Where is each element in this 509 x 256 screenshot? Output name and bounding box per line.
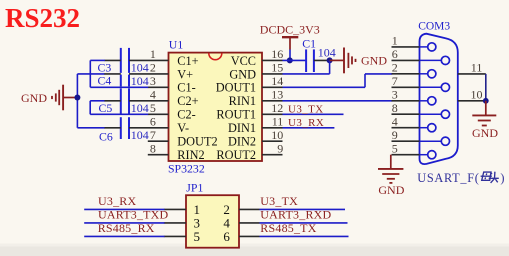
COM3 pin stubs (392, 47, 420, 155)
wire GND bus vertical (76, 74, 78, 128)
svg-text:7: 7 (150, 128, 156, 142)
svg-text:USART_F(: USART_F( (417, 171, 479, 185)
wire C1 to pin15 GND (283, 60, 330, 74)
svg-text:GND: GND (361, 53, 387, 67)
wire power stem to VCC (289, 50, 291, 61)
svg-text:GND: GND (472, 126, 498, 140)
svg-text:RS485_RX: RS485_RX (98, 221, 155, 235)
svg-text:3: 3 (392, 88, 398, 102)
wire JP1 pin5 (84, 235, 164, 237)
COM3 pin stub numbers (392, 34, 398, 156)
svg-text:C1+: C1+ (177, 54, 198, 68)
junction C1 right (327, 57, 333, 63)
power DCDC_3V3 rail (260, 23, 320, 50)
svg-text:16: 16 (271, 47, 283, 61)
svg-text:104: 104 (131, 74, 149, 88)
svg-text:6: 6 (223, 229, 230, 244)
connector JP1 body (186, 195, 239, 248)
wire JP1 pin6 (260, 235, 349, 237)
svg-text:DOUT2: DOUT2 (177, 135, 217, 149)
svg-text:U1: U1 (169, 38, 184, 52)
svg-text:C2+: C2+ (177, 94, 198, 108)
svg-text:DCDC_3V3: DCDC_3V3 (260, 23, 320, 37)
svg-text:8: 8 (150, 141, 156, 155)
COM3 pin holes (420, 43, 450, 159)
wire RIN1 pin13 to COM3 pin3 (283, 100, 393, 102)
capacitor C4 (98, 73, 169, 88)
svg-text:ROUT1: ROUT1 (216, 108, 256, 122)
svg-text:5: 5 (392, 141, 398, 155)
svg-text:5: 5 (150, 101, 156, 115)
U1 pin 7 lead (148, 140, 169, 142)
U1 pin names (177, 54, 256, 162)
svg-text:RS232: RS232 (5, 3, 80, 33)
svg-text:7: 7 (392, 74, 398, 88)
svg-text:11: 11 (471, 60, 483, 74)
wire C5 left (90, 100, 104, 102)
svg-text:12: 12 (271, 101, 283, 115)
JP1 pin numbers (194, 202, 231, 244)
svg-text:U3_RX: U3_RX (288, 117, 324, 129)
svg-text:6: 6 (392, 47, 398, 61)
svg-text:JP1: JP1 (186, 180, 203, 194)
svg-text:DOUT1: DOUT1 (216, 81, 256, 95)
svg-text:C6: C6 (99, 129, 113, 143)
op-amp U1 body (SP3232) (169, 53, 263, 161)
svg-text:DIN2: DIN2 (228, 135, 256, 149)
capacitor C5 (99, 88, 169, 115)
svg-text:C5: C5 (99, 101, 113, 115)
ground GND at COM3 pin5 (378, 155, 405, 198)
capacitor C1 (302, 36, 336, 72)
svg-text:RIN1: RIN1 (229, 94, 256, 108)
svg-text:UART3_TXD: UART3_TXD (98, 207, 169, 221)
svg-text:U3_TX: U3_TX (288, 103, 324, 115)
wire riser C5 to pin5 (89, 101, 91, 115)
U1 right pin numbers (271, 47, 283, 155)
svg-text:C1: C1 (302, 36, 316, 50)
svg-text:15: 15 (271, 61, 283, 75)
svg-text:COM3: COM3 (418, 20, 450, 32)
capacitor C3 (98, 48, 169, 75)
wire C3 to pin1 (90, 59, 105, 61)
COM3 pin 11 stub (458, 60, 486, 74)
svg-text:C1-: C1- (177, 81, 195, 95)
svg-text:ROUT2: ROUT2 (216, 148, 256, 162)
svg-text:GND: GND (229, 67, 256, 81)
U1 left pin numbers (150, 47, 156, 155)
svg-text:UART3_RXD: UART3_RXD (260, 207, 331, 221)
svg-text:8: 8 (392, 101, 398, 115)
connector COM3 body (420, 34, 458, 164)
svg-text:GND: GND (21, 91, 47, 105)
wire pin5 row (90, 113, 148, 115)
svg-text:4: 4 (392, 114, 398, 128)
wire pin3 row (90, 86, 148, 88)
svg-text:2: 2 (150, 61, 156, 75)
wire JP1 pin4 (260, 222, 348, 224)
U1 pin 3 lead (148, 86, 169, 88)
junction GND bus (74, 95, 80, 101)
svg-text:3: 3 (150, 74, 156, 88)
svg-text:): ) (500, 171, 504, 185)
svg-text:V-: V- (177, 121, 189, 135)
svg-text:9: 9 (277, 141, 283, 155)
wire C6 left to GND bus (77, 127, 104, 129)
svg-text:11: 11 (272, 115, 284, 129)
ground GND left (21, 85, 77, 111)
svg-text:DIN1: DIN1 (228, 121, 256, 135)
svg-text:VCC: VCC (231, 54, 256, 68)
COM3 pin 10 stub (458, 87, 486, 101)
svg-text:10: 10 (271, 128, 283, 142)
svg-text:104: 104 (318, 45, 336, 59)
svg-text:1: 1 (392, 34, 398, 48)
svg-text:RIN2: RIN2 (177, 148, 204, 162)
wire DOUT1 pin14 to COM3 pin2 (283, 74, 393, 87)
svg-text:SP3232: SP3232 (168, 162, 205, 176)
wire C4 left to GND bus (77, 73, 104, 75)
wire JP1 pin1 (84, 208, 164, 210)
svg-text:4: 4 (150, 88, 156, 102)
COM3 part name USART_F (417, 171, 504, 185)
svg-text:10: 10 (471, 87, 483, 101)
svg-text:104: 104 (131, 128, 149, 142)
svg-text:9: 9 (392, 128, 398, 142)
net label U3_RX at U1 (283, 117, 335, 129)
wire shield pins 10-11 (485, 74, 487, 101)
svg-text:C2-: C2- (177, 108, 195, 122)
junction shield GND (483, 98, 489, 104)
U1 pin 8 lead (148, 154, 169, 156)
U1 right pin leads 16-9 (262, 60, 283, 154)
net label U3_TX at U1 (283, 103, 344, 115)
svg-text:1: 1 (150, 47, 156, 61)
svg-text:C4: C4 (98, 73, 112, 87)
wire pin16 VCC to C1 (283, 59, 307, 61)
wire riser C3 to pin3 (89, 60, 91, 87)
svg-text:U3_TX: U3_TX (260, 194, 298, 208)
svg-text:2: 2 (392, 61, 398, 75)
svg-text:U3_RX: U3_RX (98, 194, 136, 208)
svg-text:13: 13 (271, 88, 283, 102)
svg-text:RS485_TX: RS485_TX (260, 221, 316, 235)
svg-text:14: 14 (271, 74, 283, 88)
ground GND at C1 (330, 48, 388, 74)
svg-text:5: 5 (194, 229, 201, 244)
junction VCC power (287, 57, 293, 63)
svg-text:104: 104 (131, 61, 149, 75)
JP1 pin leads (164, 209, 260, 236)
ground GND shield (472, 101, 498, 140)
wire JP1 pin2 (260, 208, 346, 210)
svg-text:GND: GND (378, 183, 404, 197)
capacitor C6 (99, 117, 169, 143)
svg-text:6: 6 (150, 115, 156, 129)
wire JP1 pin3 (84, 222, 164, 224)
svg-text:104: 104 (131, 101, 149, 115)
U1 pin 5 lead (148, 113, 169, 115)
svg-text:V+: V+ (177, 67, 193, 81)
